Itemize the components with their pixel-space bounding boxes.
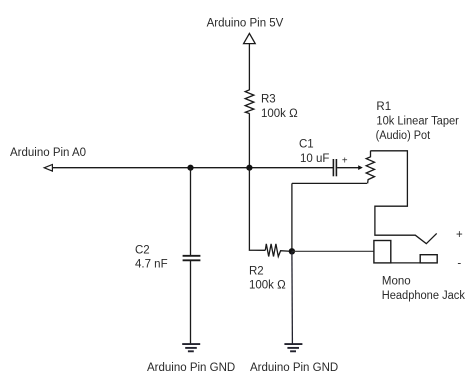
potentiometer R1 bbox=[366, 151, 374, 184]
power symbol 5V (open triangle) bbox=[244, 33, 256, 43]
ground (left) bbox=[182, 344, 200, 351]
svg-text:100k Ω: 100k Ω bbox=[249, 280, 286, 292]
svg-text:Headphone Jack: Headphone Jack bbox=[382, 290, 465, 302]
svg-text:100k Ω: 100k Ω bbox=[261, 108, 298, 120]
jack tip terminal (small rectangle) bbox=[420, 255, 437, 263]
svg-text:10k Linear Taper: 10k Linear Taper bbox=[376, 115, 459, 127]
wire pot top to jack tip contact bbox=[370, 151, 436, 244]
junction dot node A (A0 / C2) bbox=[187, 165, 193, 171]
svg-text:C1: C1 bbox=[299, 139, 314, 151]
wire node B down to R2 bbox=[249, 168, 265, 251]
svg-text:10 uF: 10 uF bbox=[300, 153, 329, 165]
svg-text:-: - bbox=[457, 258, 461, 270]
svg-text:Mono: Mono bbox=[382, 276, 411, 288]
junction dot node B (A0 / R3 / R2) bbox=[246, 165, 252, 171]
svg-text:C2: C2 bbox=[135, 245, 150, 257]
wire sleeve to tip terminal bbox=[391, 262, 420, 264]
wire C2 to ground bbox=[190, 261, 192, 344]
junction dot node C (R2 / GND / jack) bbox=[289, 248, 295, 254]
svg-text:4.7 nF: 4.7 nF bbox=[135, 259, 168, 271]
arrow A0 (open arrowhead) bbox=[44, 165, 52, 172]
capacitor C1 bbox=[333, 159, 336, 176]
resistor R3 bbox=[245, 88, 254, 114]
wire A0 horizontal bbox=[52, 167, 333, 169]
resistor R2 bbox=[265, 244, 292, 257]
svg-text:+: + bbox=[456, 229, 463, 241]
svg-text:R3: R3 bbox=[261, 94, 276, 106]
wire R3 to node A bbox=[248, 113, 250, 167]
svg-text:Arduino Pin 5V: Arduino Pin 5V bbox=[207, 18, 284, 30]
svg-text:Arduino Pin GND: Arduino Pin GND bbox=[147, 362, 235, 374]
capacitor C2 bbox=[183, 256, 201, 260]
jack sleeve terminal (rectangle) bbox=[374, 241, 391, 263]
svg-text:Arduino Pin A0: Arduino Pin A0 bbox=[10, 147, 86, 159]
wire node C to jack sleeve bbox=[292, 250, 374, 252]
svg-text:(Audio) Pot: (Audio) Pot bbox=[376, 130, 431, 142]
wire C1 to pot wiper bbox=[337, 167, 359, 169]
wire node A to C2 bbox=[190, 168, 192, 255]
ground (right) bbox=[284, 344, 302, 351]
arrow wiper (filled) bbox=[358, 165, 363, 170]
wire pot bottom to R2 node bbox=[292, 182, 367, 184]
wire 5V to R3 bbox=[248, 44, 250, 88]
svg-text:R2: R2 bbox=[249, 265, 264, 277]
svg-text:R1: R1 bbox=[376, 101, 391, 113]
svg-text:+: + bbox=[342, 155, 348, 166]
svg-text:Arduino Pin GND: Arduino Pin GND bbox=[250, 362, 338, 374]
wire node C to ground bbox=[291, 251, 294, 344]
wire pot bottom vertical bbox=[291, 183, 293, 251]
